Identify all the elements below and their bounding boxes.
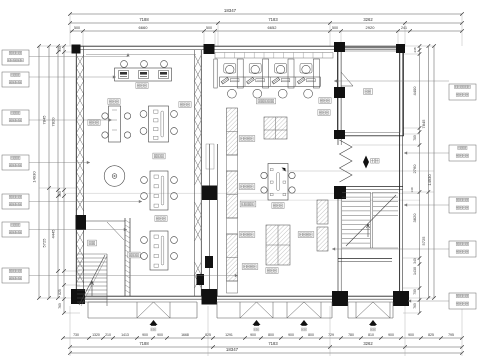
svg-text:500: 500: [74, 26, 80, 30]
svg-text:18347: 18347: [224, 8, 237, 13]
svg-text:140: 140: [410, 187, 414, 192]
svg-text:6652: 6652: [268, 25, 278, 30]
svg-text:4445: 4445: [51, 229, 56, 239]
svg-text:800: 800: [268, 333, 274, 337]
svg-text:7188: 7188: [139, 341, 149, 346]
svg-text:210: 210: [105, 333, 111, 337]
svg-text:7820: 7820: [51, 117, 56, 127]
svg-text:760: 760: [58, 303, 62, 309]
svg-text:5725: 5725: [42, 238, 47, 248]
svg-text:3262: 3262: [363, 17, 373, 22]
svg-text:5725: 5725: [421, 236, 426, 246]
svg-text:900: 900: [142, 333, 148, 337]
svg-text:3820: 3820: [412, 213, 417, 223]
svg-text:7845: 7845: [421, 119, 426, 129]
svg-text:380: 380: [58, 191, 62, 197]
svg-text:1291: 1291: [225, 333, 233, 337]
svg-text:900: 900: [250, 333, 256, 337]
svg-text:3262: 3262: [363, 341, 373, 346]
svg-text:500: 500: [206, 26, 212, 30]
svg-text:810: 810: [368, 333, 374, 337]
svg-text:700: 700: [413, 289, 417, 295]
svg-text:6660: 6660: [139, 25, 149, 30]
svg-text:825: 825: [428, 333, 434, 337]
svg-text:1668: 1668: [181, 333, 189, 337]
svg-text:900: 900: [388, 333, 394, 337]
svg-text:1320: 1320: [92, 333, 100, 337]
svg-text:14930: 14930: [427, 174, 432, 186]
svg-text:4400: 4400: [412, 86, 417, 96]
svg-text:900: 900: [288, 333, 294, 337]
svg-text:795: 795: [448, 333, 454, 337]
svg-text:780: 780: [413, 135, 417, 141]
svg-text:7845: 7845: [42, 115, 47, 125]
svg-text:300: 300: [58, 46, 62, 52]
svg-text:900: 900: [408, 333, 414, 337]
svg-text:825: 825: [58, 289, 62, 295]
svg-text:241: 241: [401, 26, 407, 30]
svg-text:7188: 7188: [139, 17, 149, 22]
svg-text:729: 729: [328, 333, 334, 337]
svg-text:780: 780: [348, 333, 354, 337]
svg-text:900: 900: [157, 333, 163, 337]
svg-text:7183: 7183: [268, 341, 278, 346]
svg-text:730: 730: [73, 333, 79, 337]
svg-text:248: 248: [413, 47, 417, 52]
svg-text:18347: 18347: [226, 347, 239, 352]
svg-text:2760: 2760: [412, 164, 417, 174]
svg-text:7183: 7183: [268, 17, 278, 22]
svg-text:2920: 2920: [366, 25, 376, 30]
svg-text:800: 800: [308, 333, 314, 337]
svg-text:14930: 14930: [32, 171, 37, 183]
svg-text:1413: 1413: [121, 333, 129, 337]
svg-text:1430: 1430: [413, 267, 417, 275]
svg-text:500: 500: [332, 26, 338, 30]
svg-text:760: 760: [413, 303, 417, 309]
svg-text:340: 340: [413, 258, 417, 264]
